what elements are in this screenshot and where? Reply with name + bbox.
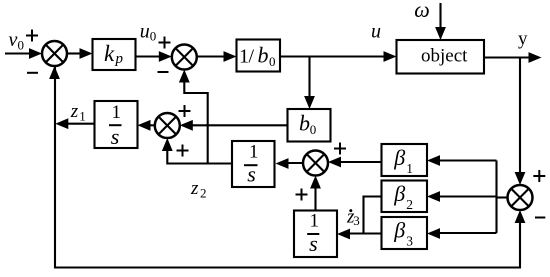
svg-text:1: 1 <box>79 108 86 123</box>
svg-text:1: 1 <box>112 102 122 123</box>
svg-text:2: 2 <box>406 197 413 212</box>
svg-text:s: s <box>111 124 120 149</box>
svg-text:2: 2 <box>200 185 207 200</box>
svg-text:b: b <box>299 110 310 135</box>
svg-text:/: / <box>249 46 255 68</box>
svg-text:v: v <box>9 29 18 51</box>
svg-text:s: s <box>247 162 256 187</box>
svg-text:0: 0 <box>150 29 157 44</box>
svg-text:object: object <box>421 46 468 67</box>
svg-text:1: 1 <box>239 46 249 68</box>
svg-text:z: z <box>190 178 199 199</box>
svg-text:β: β <box>393 145 405 170</box>
svg-text:1: 1 <box>310 211 320 232</box>
svg-text:0: 0 <box>269 54 276 69</box>
svg-text:0: 0 <box>18 37 25 52</box>
svg-text:y: y <box>518 29 528 50</box>
svg-text:p: p <box>115 51 124 67</box>
svg-text:β: β <box>393 218 405 243</box>
svg-text:1: 1 <box>249 142 259 163</box>
svg-text:3: 3 <box>406 234 413 249</box>
svg-text:1: 1 <box>406 161 413 176</box>
svg-text:u: u <box>140 20 150 42</box>
svg-text:s: s <box>309 231 318 256</box>
svg-text:b: b <box>258 43 269 68</box>
svg-text:ω: ω <box>414 0 430 22</box>
svg-text:u: u <box>371 21 381 43</box>
svg-text:z: z <box>70 101 79 122</box>
svg-text:k: k <box>104 41 115 66</box>
svg-text:β: β <box>393 181 405 206</box>
svg-text:3: 3 <box>353 213 360 228</box>
svg-text:0: 0 <box>310 122 317 137</box>
